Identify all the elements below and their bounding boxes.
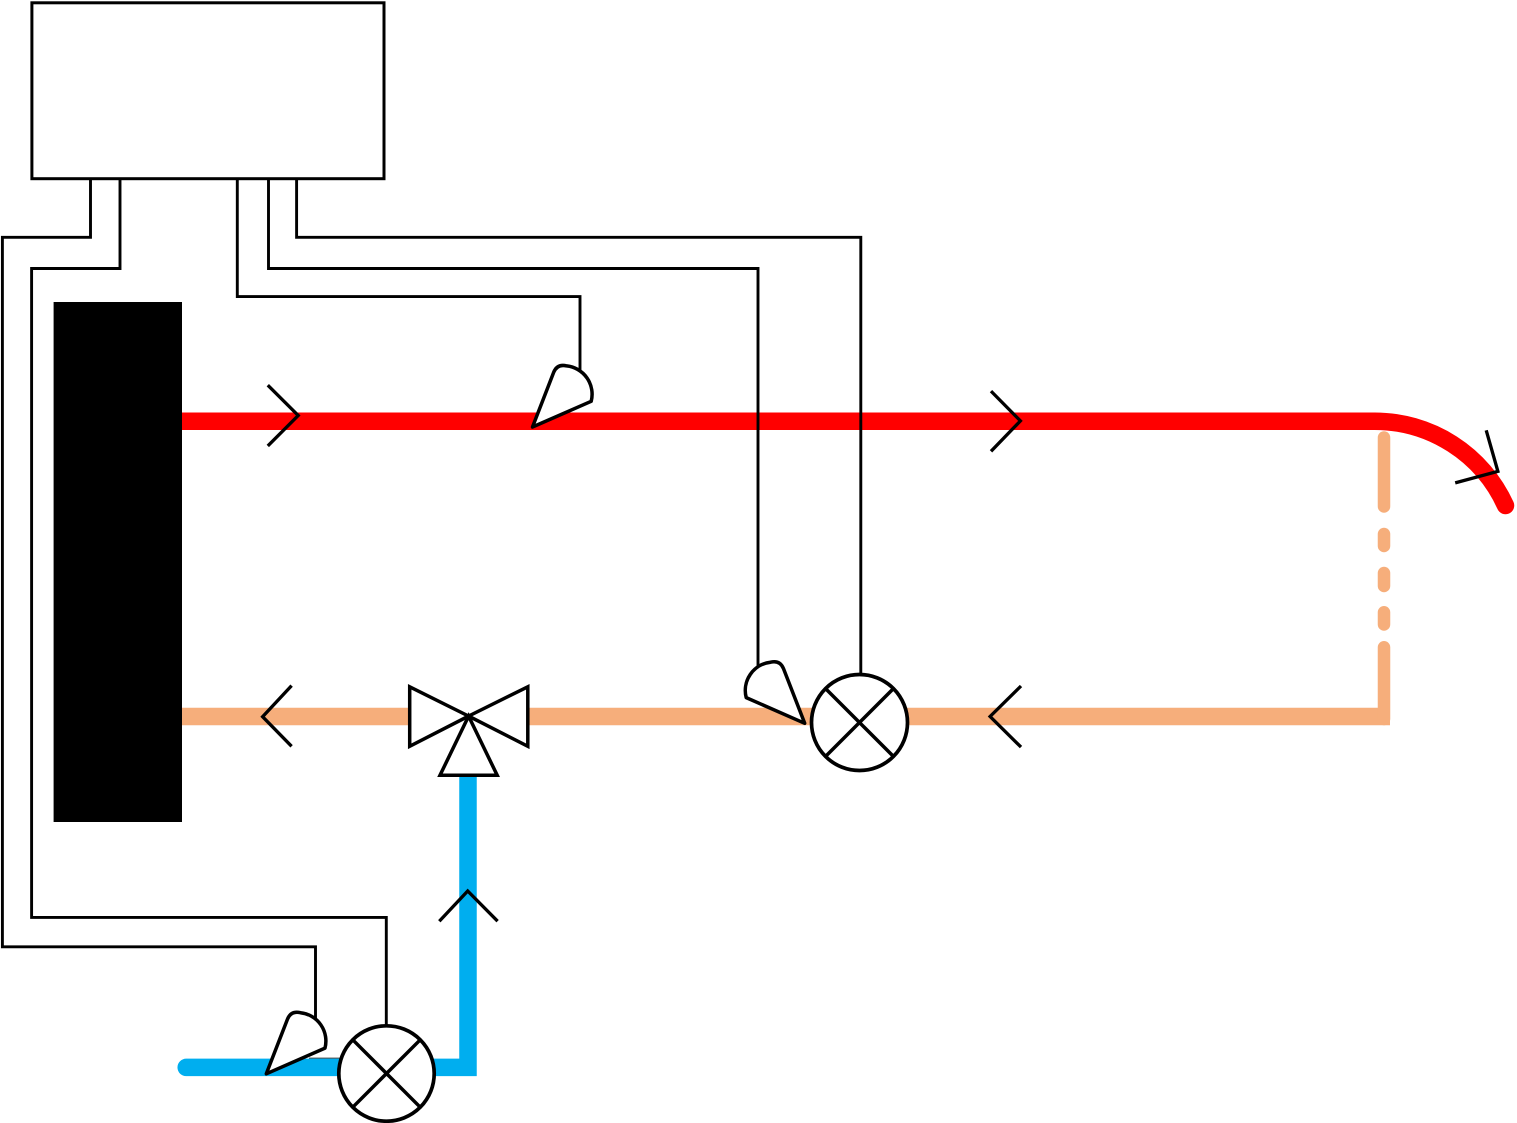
controller box [32, 3, 384, 179]
return pipe left segment (orange) [182, 708, 411, 726]
mixing valve right triangle [469, 687, 528, 747]
pump P2 circle (cold line) [339, 1026, 434, 1121]
supply pipe (red flow line) [182, 421, 1506, 505]
wire B controller to blue pump [32, 178, 387, 1027]
pump P2 cross stroke 1 [353, 1040, 420, 1107]
mixing valve bottom triangle [440, 716, 497, 775]
pump P1 circle (return line) [812, 675, 908, 771]
mixing valve left triangle [410, 687, 469, 747]
sensor S3 on return pipe [745, 662, 804, 724]
pump P2 cross stroke 2 [353, 1040, 420, 1107]
wire C controller to supply sensor [237, 178, 580, 380]
boiler body (black block) [54, 302, 182, 822]
flow arrow on return pipe 1 [263, 686, 292, 747]
dashed riser segment 3 (orange) [1378, 573, 1391, 586]
wire A controller to blue sensor [2, 178, 315, 1025]
return pipe right segment (orange) [528, 708, 1391, 726]
dashed riser segment 2 (orange) [1378, 534, 1391, 546]
sensor S2 on cold pipe [266, 1012, 326, 1074]
flow arrow on supply curve end [1455, 430, 1498, 483]
dashed riser segment 1 (orange) [1378, 438, 1391, 507]
sensor S1 on supply pipe [533, 365, 593, 427]
flow arrow on return pipe 2 [990, 686, 1021, 747]
flow arrow on supply pipe 1 [268, 385, 298, 446]
flow arrow on cold pipe [439, 891, 497, 921]
cold water pipe (blue) [186, 775, 468, 1067]
wire D controller to return sensor [269, 178, 759, 675]
wire E controller to return pump [297, 178, 861, 676]
dashed riser segment 4 (orange) [1378, 612, 1391, 624]
flow arrow on supply pipe 2 [991, 391, 1020, 451]
pump P1 cross stroke 2 [826, 689, 894, 757]
thin dark line above cold pipe [309, 1058, 340, 1060]
pump P1 cross stroke 1 [826, 689, 894, 757]
dashed riser segment 5 (orange) [1378, 647, 1391, 719]
